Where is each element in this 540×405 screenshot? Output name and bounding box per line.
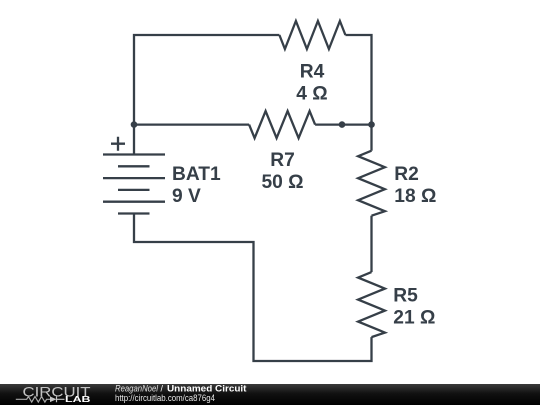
battery plate short 1 — [118, 165, 150, 167]
svg-text:BAT1: BAT1 — [172, 164, 221, 185]
svg-text:4 Ω: 4 Ω — [296, 83, 327, 104]
node junction dot left (battery + / R7) — [131, 121, 138, 128]
svg-text:R4: R4 — [300, 62, 325, 83]
svg-text:R5: R5 — [393, 285, 418, 306]
resistor R7 (horizontal zigzag, middle) — [249, 111, 315, 138]
battery plate short 3 — [118, 212, 150, 214]
svg-text:18 Ω: 18 Ω — [394, 186, 436, 207]
wire from R4 to right vertical rail — [345, 35, 371, 125]
svg-text:R2: R2 — [394, 164, 419, 185]
logo diode symbol — [50, 397, 57, 403]
wire from R7 to right rail — [315, 123, 371, 125]
battery plate long 2 — [103, 177, 165, 179]
svg-text:50 Ω: 50 Ω — [261, 172, 303, 193]
svg-text:LAB: LAB — [65, 395, 91, 404]
battery plate short 2 — [118, 189, 150, 191]
svg-text:http://circuitlab.com/ca876g4: http://circuitlab.com/ca876g4 — [115, 393, 215, 403]
svg-text:R7: R7 — [270, 150, 295, 171]
resistor R2 (vertical zigzag) — [358, 151, 385, 216]
resistor R4 (horizontal zigzag, top) — [279, 21, 345, 49]
wire R2 to R5 — [370, 216, 372, 272]
battery BAT1 plus sign — [111, 137, 125, 151]
logo resistor zigzag — [16, 397, 50, 403]
wire top-left loop: from battery + node up and across to R4 — [134, 35, 279, 125]
wire battery negative down, around bottom to R5 — [134, 214, 372, 362]
resistor R5 (vertical zigzag) — [358, 272, 385, 337]
battery plate long 3 — [103, 201, 165, 203]
wire middle: node A to R7 — [134, 123, 249, 125]
svg-text:21 Ω: 21 Ω — [393, 307, 435, 328]
node junction dot right (rail) — [368, 121, 375, 128]
wire battery top terminal — [133, 125, 135, 155]
node junction dot mid (R7 output) — [339, 121, 346, 128]
svg-text:9 V: 9 V — [172, 186, 201, 207]
battery BAT1 plate long 1 — [103, 153, 165, 155]
wire right rail to R2 — [370, 125, 372, 151]
